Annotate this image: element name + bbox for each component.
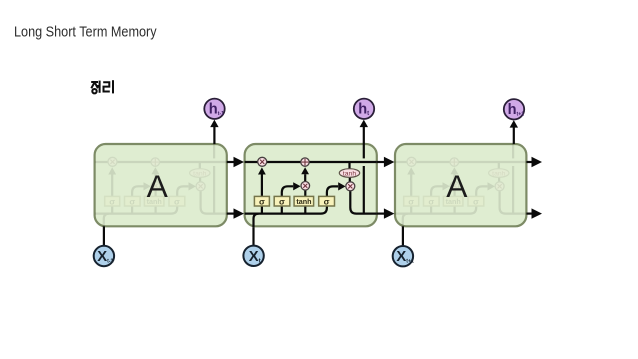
svg-text:Long Short Term Memory: Long Short Term Memory xyxy=(14,24,157,40)
svg-text:A: A xyxy=(446,168,468,204)
svg-text:A: A xyxy=(147,168,169,204)
